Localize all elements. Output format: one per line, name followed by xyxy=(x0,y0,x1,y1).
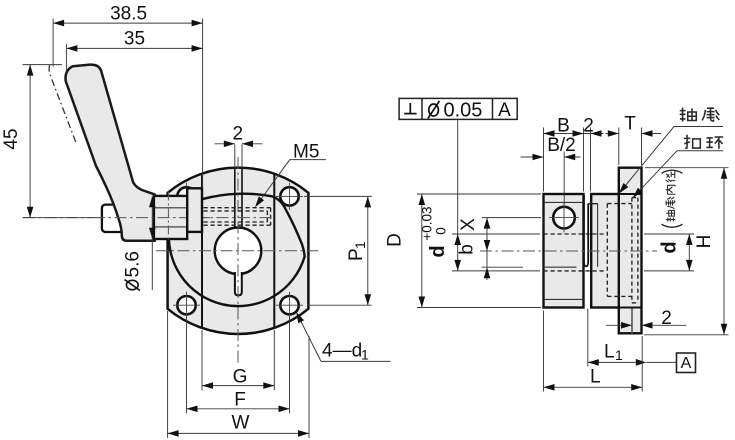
dimension G xyxy=(202,330,274,390)
dimension 2 (slit width, top) xyxy=(215,144,263,169)
svg-text:d: d xyxy=(427,245,449,257)
dimension d (blue, right) xyxy=(644,233,694,235)
dimension 35 xyxy=(66,44,202,70)
sleeve block xyxy=(591,194,619,308)
svg-text:1: 1 xyxy=(615,347,623,363)
corner hole top-left xyxy=(173,183,200,210)
hub neck line upper xyxy=(154,207,187,209)
flange body outline xyxy=(168,168,309,334)
svg-text:A: A xyxy=(498,100,511,121)
hub horizontal center line segment xyxy=(93,217,210,219)
hidden shaft hole d top xyxy=(544,233,606,235)
dimension phi5.6 xyxy=(151,197,153,291)
dimension P1 xyxy=(304,196,372,305)
dimension T xyxy=(606,128,662,166)
dimension B/2 xyxy=(521,152,581,205)
datum A box xyxy=(646,361,676,363)
lip top line xyxy=(619,307,642,309)
dimension X xyxy=(482,217,541,219)
sleeve silhouette across flange xyxy=(619,193,642,195)
dimension F xyxy=(187,317,290,414)
svg-text:P: P xyxy=(346,248,367,261)
label bearing (zhou cheng) xyxy=(680,108,697,122)
dimension 38.5 xyxy=(53,19,203,189)
slit bottom line xyxy=(545,266,577,268)
svg-text:X: X xyxy=(458,218,479,231)
svg-text:B: B xyxy=(557,116,570,137)
dimension L1 xyxy=(588,309,642,367)
perpendicularity symbol xyxy=(404,103,416,114)
svg-text:2: 2 xyxy=(233,124,244,145)
svg-text:T: T xyxy=(624,114,636,135)
svg-text:2: 2 xyxy=(661,308,672,329)
label retaining ring (kou huan) xyxy=(684,135,700,149)
svg-text:+0.03: +0.03 xyxy=(420,206,435,240)
corner hole top-right xyxy=(276,183,303,210)
flange plate xyxy=(619,168,642,334)
clamp block xyxy=(544,194,584,308)
svg-text:L: L xyxy=(590,367,601,388)
svg-text:G: G xyxy=(233,367,248,388)
clamp boss block xyxy=(187,188,202,232)
svg-text:D: D xyxy=(385,233,406,247)
svg-text:W: W xyxy=(232,413,250,434)
svg-text:d: d xyxy=(659,241,681,253)
phi 0.05 xyxy=(429,104,439,116)
svg-text:35: 35 xyxy=(124,29,145,50)
lever alternate position dash-dot xyxy=(49,65,76,144)
screw end cap xyxy=(102,205,125,232)
svg-text:A: A xyxy=(681,355,692,372)
svg-text:45: 45 xyxy=(1,128,22,149)
dimension L xyxy=(544,311,643,392)
screw axis center line xyxy=(23,217,272,219)
dimension H xyxy=(644,168,729,335)
dimension d +0.03/0 (blue d) xyxy=(452,233,540,235)
M5 tapped hole hidden lines xyxy=(204,208,271,226)
dimension 45 xyxy=(23,65,94,218)
svg-text:b: b xyxy=(457,244,478,255)
clamp screw hole xyxy=(549,203,579,233)
hub vertical center line xyxy=(167,192,169,242)
hidden bearing bore top xyxy=(607,203,632,205)
GD&T frame xyxy=(399,98,517,119)
svg-text:5.6: 5.6 xyxy=(123,251,144,277)
slit side view xyxy=(584,195,588,266)
dimension 2 (slit, side) xyxy=(590,128,592,192)
dimension b xyxy=(482,266,524,268)
svg-text:1: 1 xyxy=(361,347,369,363)
dimension 2 (flange lip) xyxy=(606,324,632,326)
hub neck line lower xyxy=(154,226,187,228)
svg-text:1: 1 xyxy=(352,241,368,249)
side view center line xyxy=(480,250,657,252)
clamp lever xyxy=(66,65,155,241)
svg-text:2: 2 xyxy=(583,116,594,137)
clamp block chamfer line bottom xyxy=(544,298,584,300)
svg-text:0: 0 xyxy=(434,227,449,235)
svg-text:F: F xyxy=(234,390,246,411)
dimension B xyxy=(544,128,591,192)
svg-text:38.5: 38.5 xyxy=(110,4,147,25)
slit slot below bore xyxy=(235,272,242,295)
slit shoulder line xyxy=(588,203,598,205)
label bearing inner dia (rotated) xyxy=(662,170,683,227)
retaining ring groove hidden lines xyxy=(632,198,638,303)
hidden shaft hole d bottom xyxy=(544,270,606,272)
svg-text:L: L xyxy=(604,342,615,363)
dimension W xyxy=(168,311,309,438)
svg-text:4—d: 4—d xyxy=(322,341,362,362)
vertical center line xyxy=(237,157,239,364)
body flat edge left xyxy=(201,174,203,328)
svg-text:0.05: 0.05 xyxy=(444,100,483,122)
center bore xyxy=(215,228,262,275)
counterbore edge xyxy=(597,204,599,267)
horizontal center line xyxy=(156,250,320,252)
corner hole bottom-right xyxy=(276,292,303,319)
slit upper edge lines xyxy=(234,168,236,228)
hidden bearing bore bottom xyxy=(607,295,632,297)
svg-text:H: H xyxy=(694,235,715,249)
hidden bore wall xyxy=(606,204,608,297)
body flat edge right xyxy=(273,174,275,328)
clamp block chamfer line top xyxy=(544,201,584,203)
body cylinder silhouette xyxy=(169,194,305,306)
corner hole bottom-left xyxy=(173,292,200,319)
dimension D xyxy=(417,194,541,308)
svg-text:B/2: B/2 xyxy=(547,135,576,156)
GD&T leader xyxy=(457,119,459,234)
flange lip groove edge visible xyxy=(631,308,633,334)
lever hub xyxy=(154,196,187,239)
